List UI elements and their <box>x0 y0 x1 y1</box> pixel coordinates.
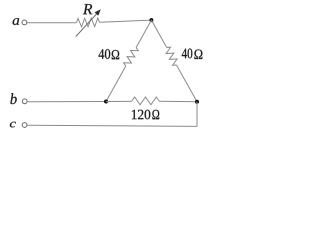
wire a to resistor R <box>27 22 77 24</box>
node: right junction <box>195 100 199 104</box>
wire left 40ohm to node b <box>106 66 126 102</box>
wire b to left node <box>27 101 106 103</box>
node: left junction <box>104 100 108 104</box>
node: apex junction <box>149 18 153 22</box>
label 40ohm right <box>182 49 203 60</box>
resistor R (variable) <box>76 4 101 36</box>
wire left node to 120ohm <box>106 100 132 102</box>
wire right 40ohm to right node <box>176 65 197 102</box>
resistor 40ohm right zigzag <box>166 47 177 65</box>
resistor 40ohm left zigzag <box>124 48 139 67</box>
wire R to apex node <box>100 20 152 22</box>
wire apex to left 40ohm <box>136 20 151 47</box>
wire 120ohm to right node <box>159 100 197 103</box>
terminal b <box>10 93 27 104</box>
wire apex to right 40ohm <box>151 20 166 47</box>
wire c to bottom-right corner <box>27 125 197 126</box>
label 40ohm left <box>99 49 120 59</box>
terminal a <box>13 18 27 25</box>
terminal c <box>10 122 27 128</box>
resistor 120ohm zigzag <box>132 97 159 105</box>
wire bottom-right corner up to right node <box>196 102 198 127</box>
label 120ohm <box>132 110 159 120</box>
